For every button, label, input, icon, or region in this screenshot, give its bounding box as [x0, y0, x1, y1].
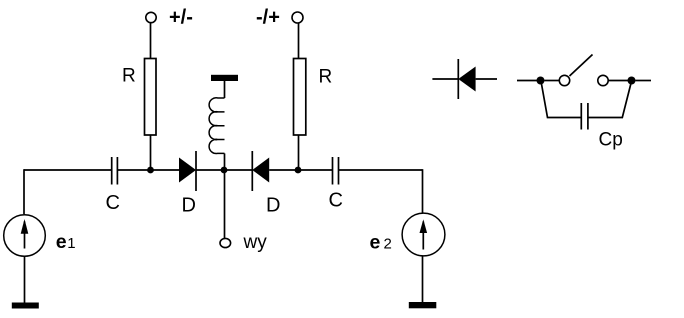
inductor L (coil) — [209, 98, 224, 154]
wire node center to terminal wy — [224, 170, 226, 238]
switch right contact circle — [598, 75, 608, 85]
wire e1 to ground — [24, 256, 26, 303]
svg-text:wy: wy — [243, 232, 268, 253]
wire switch left lead — [517, 80, 541, 82]
diode symbol (equivalence sketch, pointing left) — [457, 59, 459, 99]
svg-text:e: e — [370, 232, 381, 254]
node center (junction dot) — [221, 167, 228, 174]
wire node A corner to source e1 — [23, 169, 25, 214]
svg-text:+/-: +/- — [169, 7, 193, 29]
wire diode symbol cathode lead — [432, 78, 458, 80]
wire e2 corner down — [422, 169, 424, 213]
terminal wy — [220, 238, 231, 247]
ground (e2) — [409, 302, 437, 308]
terminal -/+ (right input) — [292, 12, 303, 23]
ground (e1) — [12, 303, 39, 309]
node A (junction dot left) — [147, 167, 154, 174]
svg-text:C: C — [329, 190, 343, 212]
current source e2 — [402, 213, 445, 256]
node B (junction dot right) — [295, 167, 302, 174]
switch left node dot — [537, 77, 545, 85]
wire capacitor Cp to right dot — [588, 84, 631, 118]
svg-text:1: 1 — [67, 235, 75, 252]
wire diode D2 to capacitor C2 — [269, 169, 332, 171]
wire e1 corner to capacitor C1 — [24, 169, 112, 171]
wire resistor R right to node B — [298, 135, 300, 170]
svg-text:e: e — [56, 231, 67, 253]
switch lever — [570, 55, 593, 77]
wire diode symbol anode lead — [476, 78, 497, 80]
wire right contact to dot — [608, 80, 631, 82]
svg-text:2: 2 — [384, 236, 392, 253]
wire terminal to resistor R left — [150, 23, 152, 59]
wire resistor R left to node A — [150, 135, 152, 170]
wire dot to left contact — [545, 80, 560, 82]
wire terminal to resistor R right — [298, 23, 300, 59]
resistor R (left) — [145, 59, 157, 136]
switch left contact circle — [559, 75, 569, 85]
wire left dot to capacitor Cp — [542, 84, 582, 118]
svg-text:-/+: -/+ — [256, 7, 280, 29]
diode D2 (right, pointing left) — [251, 151, 253, 191]
current source e1 — [4, 215, 46, 257]
wire inductor to node center — [224, 153, 226, 170]
svg-text:Cp: Cp — [599, 130, 623, 151]
wire diode D1 to diode D2 through node wy — [196, 169, 252, 171]
svg-text:R: R — [122, 66, 136, 87]
top electrode bar — [211, 75, 238, 81]
svg-text:C: C — [106, 192, 120, 214]
switch right node dot — [628, 77, 636, 85]
wire bar to inductor L — [224, 81, 226, 98]
terminal +/- (left input) — [146, 12, 156, 22]
capacitor C2 (right) — [332, 157, 334, 185]
svg-text:D: D — [266, 195, 280, 217]
wire e2 to ground — [422, 256, 424, 302]
capacitor Cp — [580, 103, 582, 130]
svg-text:R: R — [319, 67, 333, 88]
resistor R (right) — [294, 59, 306, 136]
wire switch right lead — [636, 80, 652, 82]
wire capacitor C2 to e2 corner — [339, 169, 423, 171]
wire capacitor C1 to diode D1 — [117, 169, 179, 171]
capacitor C1 (left) — [111, 157, 113, 185]
svg-text:D: D — [182, 195, 196, 217]
diode D1 (left, pointing right) — [179, 158, 196, 183]
